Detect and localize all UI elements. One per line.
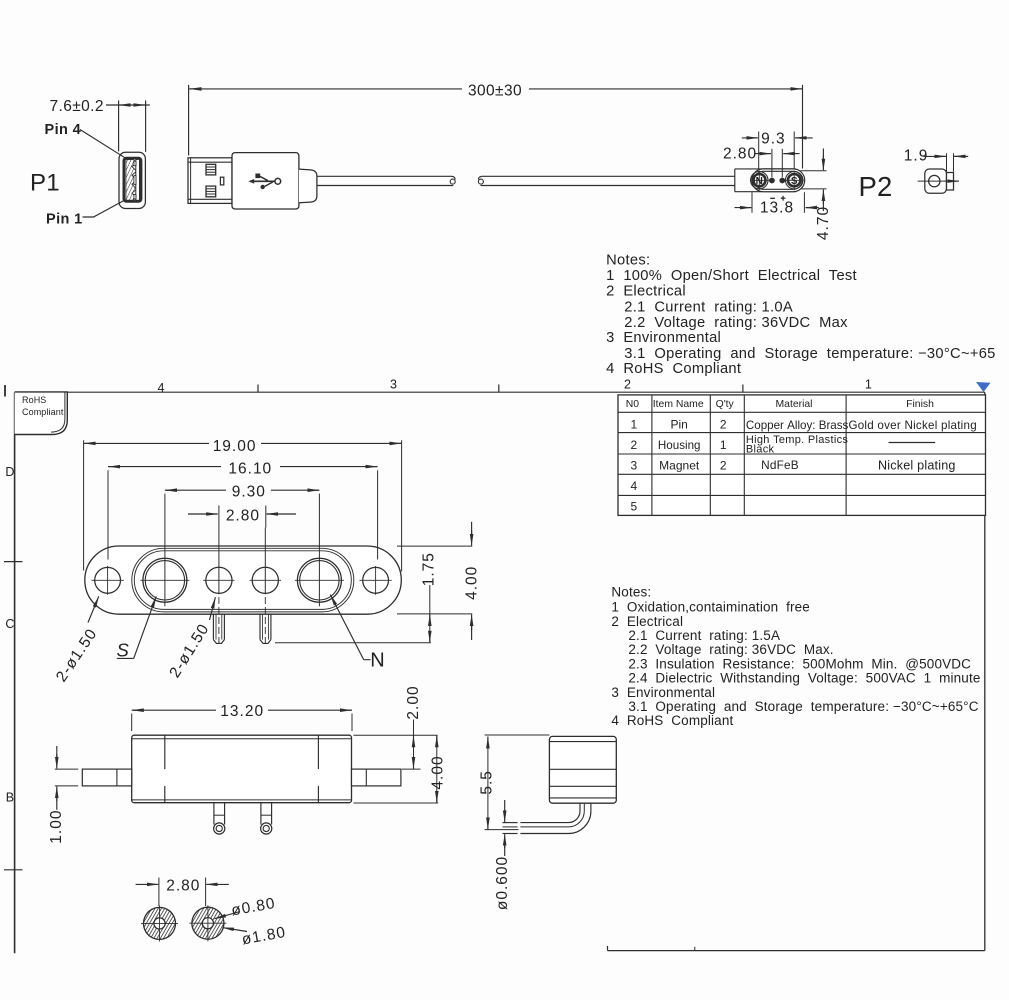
pogo pin S outer circle — [786, 172, 803, 189]
USB plug shell contact window 1 — [206, 164, 216, 175]
side view body — [132, 735, 352, 803]
dimension 2.80 arrows P2 — [755, 153, 771, 155]
frame top tick 1 — [257, 385, 259, 393]
connector P1 contact hatch area — [126, 160, 137, 201]
dimension 1.9 arrows — [924, 155, 946, 157]
dimension 2.80 tick left bottom — [158, 878, 160, 907]
svg-text:1.75: 1.75 — [421, 552, 438, 586]
side view right block lines — [317, 735, 319, 769]
svg-text:NdFeB: NdFeB — [761, 458, 799, 472]
P2 side view boss — [947, 173, 954, 191]
svg-text:2.2 Voltage rating: 36VDC M: 2.2 Voltage rating: 36VDC Max — [624, 315, 848, 331]
side view left tab — [82, 769, 131, 786]
svg-text:4 RoHS Compliant: 4 RoHS Compliant — [611, 713, 733, 728]
svg-text:9.30: 9.30 — [232, 484, 266, 501]
cable segment 1 top line — [317, 175, 452, 177]
dimension 7.6±0.2 extension line right — [145, 100, 147, 151]
connector P1 face view inner metal shell — [124, 158, 141, 201]
svg-text:Pin: Pin — [671, 418, 688, 432]
connector P1 tongue contact notch 1 — [134, 161, 136, 166]
svg-text:N0: N0 — [626, 399, 640, 410]
P2 charge pin plus dot — [779, 178, 785, 184]
wire bend middle — [520, 803, 584, 827]
cable segment 2 break curl — [479, 176, 482, 179]
svg-text:5.5: 5.5 — [479, 770, 496, 795]
USB plug metal shell — [188, 158, 232, 204]
dimension 13.8 extension line right — [803, 192, 805, 213]
label ø1.80 leader — [223, 928, 248, 932]
connector P2 housing — [735, 168, 796, 170]
svg-text:P2: P2 — [859, 171, 893, 202]
dimension 4.70 extension line top — [801, 170, 827, 172]
dimension 16.10 extension left — [107, 470, 109, 559]
solder pad right — [192, 907, 224, 939]
dimension 19.00 extension right — [401, 440, 403, 571]
connector P1 tongue — [136, 159, 140, 200]
solder pad left — [144, 907, 176, 939]
USB plug strain relief boot — [299, 169, 317, 203]
dimension 300±30 extension line left — [188, 85, 190, 156]
dimension 1.75 line — [429, 585, 431, 643]
frame corner tick top-left — [4, 385, 6, 397]
prong tip reference line — [275, 642, 431, 644]
svg-text:4.70: 4.70 — [815, 206, 832, 240]
P2 rear view body — [549, 736, 616, 803]
prong centerline right dashed — [264, 597, 266, 647]
front view prong left — [212, 614, 214, 639]
solder pin hole left (small circle) — [206, 567, 232, 593]
dimension 9.3 extension line right — [793, 132, 795, 169]
pogo pin N ring — [753, 174, 765, 186]
svg-text:2.80: 2.80 — [723, 146, 757, 163]
mounting hole left — [95, 567, 121, 593]
P2 side view centerline with arrow — [918, 180, 958, 182]
svg-text:4.00: 4.00 — [464, 566, 481, 600]
dimension 2.80 extension line left P2 — [771, 149, 773, 177]
svg-text:4: 4 — [158, 381, 165, 395]
svg-text:2.00: 2.00 — [405, 685, 422, 719]
svg-text:4.00: 4.00 — [430, 755, 447, 789]
dimension 2.00 line — [413, 720, 415, 770]
dimension 2.80 tick right bottom — [205, 878, 207, 907]
dimension 9.3 arrows — [742, 137, 758, 139]
side view body bottom inner line — [132, 799, 352, 801]
cable segment 1 break curl — [452, 176, 455, 179]
polarity plus mark — [781, 197, 786, 199]
frame left border — [14, 392, 16, 953]
svg-text:D: D — [5, 465, 14, 479]
pogo pin S ring — [788, 174, 800, 186]
label 2-ø1.50 left leader — [88, 596, 99, 622]
svg-text:2.3 Insulation Resistance:: 2.3 Insulation Resistance: 500Mohm Min. … — [628, 656, 971, 671]
svg-text:Notes:: Notes: — [606, 252, 650, 268]
svg-text:5: 5 — [630, 499, 637, 513]
dimension 13.20 extension right — [351, 714, 353, 732]
svg-text:1 Oxidation,contaimination f: 1 Oxidation,contaimination free — [611, 600, 810, 615]
pogo pin S crosshair — [793, 171, 795, 191]
svg-text:N: N — [370, 649, 384, 671]
dimension 16.10 extension right — [377, 470, 379, 559]
svg-text:Housing: Housing — [658, 439, 701, 452]
label Pin 4 leader — [80, 130, 125, 158]
svg-text:1: 1 — [865, 378, 872, 392]
notes block 2 — [611, 585, 980, 729]
dimension 13.8 arrows — [735, 207, 752, 209]
P2 side view body — [925, 169, 947, 193]
wire stub lines — [503, 822, 518, 824]
front view inner stadium outline A — [132, 548, 354, 612]
svg-text:P1: P1 — [30, 170, 60, 197]
svg-text:Copper Alloy: Brass: Copper Alloy: Brass — [746, 419, 849, 432]
USB plug shell inner bottom line — [188, 198, 232, 200]
P2 charge pin minus dot — [769, 178, 775, 184]
frame top tick 3 — [742, 385, 744, 393]
svg-text:Black: Black — [746, 443, 775, 455]
connector P2 stadium outer outline — [752, 169, 805, 192]
svg-text:4 RoHS Compliant: 4 RoHS Compliant — [606, 361, 741, 377]
svg-text:3 Environmental: 3 Environmental — [606, 330, 721, 346]
USB plug shell inner top line — [188, 161, 232, 163]
svg-text:Magnet: Magnet — [659, 458, 700, 472]
svg-text:4: 4 — [630, 479, 637, 493]
polarity minus mark — [770, 197, 775, 199]
dimension 19.00 line — [84, 442, 209, 444]
svg-text:B: B — [6, 791, 14, 805]
svg-text:C: C — [5, 617, 14, 631]
cable segment 2 top line — [482, 175, 735, 177]
svg-text:Notes:: Notes: — [611, 585, 651, 600]
USB plug plastic body — [232, 153, 299, 209]
P2 rear view body line 4 — [549, 797, 616, 799]
pogo pin S front (big circle left) — [143, 558, 187, 602]
svg-text:13.8: 13.8 — [760, 199, 794, 216]
wire bend inner — [520, 803, 580, 822]
dimension 2.00 extension bottom — [402, 768, 421, 770]
frame right border — [984, 392, 986, 950]
cable segment 1 bottom line — [317, 185, 453, 187]
dimension 13.20 line — [132, 709, 216, 711]
side view prong right — [260, 803, 262, 825]
label 2-ø1.50 middle leader — [210, 597, 216, 620]
frame left zone tick 2 — [4, 869, 23, 871]
svg-text:Gold over Nickel plating: Gold over Nickel plating — [848, 419, 976, 432]
svg-text:Item Name: Item Name — [653, 399, 704, 410]
frame bottom border — [608, 950, 985, 952]
connector P2 stadium inner outline — [754, 171, 802, 189]
mounting hole right — [363, 567, 389, 593]
svg-text:9.3: 9.3 — [761, 131, 786, 148]
dimension 7.6±0.2 line — [106, 104, 150, 106]
dimension 2.80 tick right front — [265, 506, 267, 528]
dimension 300±30 line — [189, 88, 462, 90]
frame top border — [15, 391, 985, 393]
svg-text:3.1 Operating and Storage: 3.1 Operating and Storage temperature: −… — [624, 346, 995, 362]
svg-text:S: S — [791, 176, 798, 187]
svg-text:S: S — [117, 640, 130, 661]
svg-text:Finish: Finish — [906, 399, 934, 410]
svg-text:ø0.600: ø0.600 — [494, 856, 511, 910]
blue revision triangle — [976, 382, 991, 392]
dimension 2.80 tick left front — [218, 506, 220, 528]
USB plug shell contact window 2 — [206, 186, 216, 197]
dimension 1.00 extension bottom — [55, 785, 78, 787]
svg-text:Material: Material — [776, 399, 813, 410]
USB logo — [248, 174, 280, 190]
svg-text:Nickel plating: Nickel plating — [878, 459, 956, 473]
svg-text:2 Electrical: 2 Electrical — [606, 284, 686, 300]
svg-text:2.2 Voltage rating: 36VDC M: 2.2 Voltage rating: 36VDC Max. — [628, 642, 833, 657]
dimension ø0.600 arrows — [504, 800, 506, 816]
dimension 9.3 extension line left — [758, 132, 760, 169]
connector P1 tongue contact notch 3 — [134, 195, 136, 199]
front view inner stadium outline B — [134, 551, 351, 610]
svg-text:3 Environmental: 3 Environmental — [611, 685, 715, 700]
prong centerline left dashed — [218, 597, 220, 647]
dimension 300±30 extension line right — [802, 85, 804, 169]
dimension 2.00 extension top — [354, 734, 438, 736]
dimension 16.10 line — [108, 466, 221, 468]
dimension 1.9 extension line right — [953, 153, 955, 171]
svg-text:RoHS: RoHS — [22, 395, 46, 405]
svg-text:1: 1 — [720, 438, 727, 452]
pogo pin N outer circle — [751, 172, 768, 189]
dimension 9.30 line — [165, 489, 226, 491]
dimension 5.5 extension bottom — [485, 829, 519, 831]
dimension 9.30 extension right — [318, 494, 320, 607]
svg-text:2.80: 2.80 — [226, 507, 260, 524]
svg-text:2: 2 — [720, 458, 727, 472]
frame bottom tick — [694, 947, 696, 951]
label ø0.80 leader — [215, 912, 241, 919]
pogo pin N front (big circle right) — [297, 558, 341, 602]
svg-text:1.00: 1.00 — [48, 810, 65, 844]
dimension 2.80 extension line right P2 — [781, 149, 783, 177]
dimension 4.70 extension line bottom — [801, 188, 827, 190]
label S leader — [134, 596, 157, 658]
frame left zone tick 1 — [4, 561, 23, 563]
dimension 1.9 extension line left — [946, 153, 948, 171]
dimension 5.5 line — [487, 736, 489, 829]
dimension 4.70 arrows — [822, 149, 824, 166]
svg-text:Pin 1: Pin 1 — [46, 211, 83, 227]
side view right tab — [352, 769, 401, 786]
dimension 7.6±0.2 extension line left — [118, 100, 120, 151]
dimension 1.00 extension top — [55, 768, 78, 770]
P2 rear view body line 3 — [549, 785, 616, 787]
USB plug shell left inner line — [190, 158, 192, 204]
RoHS Compliant stamp box — [15, 392, 68, 435]
P2 rear view body line 2 — [549, 768, 616, 770]
svg-text:Pin 4: Pin 4 — [45, 122, 82, 138]
frame bottom hook — [607, 946, 609, 951]
svg-text:13.20: 13.20 — [220, 703, 264, 720]
notes block 1 — [606, 252, 996, 377]
dimension 2.80 arrows front — [188, 513, 218, 515]
pogo pin N crosshair — [758, 171, 760, 191]
front view outer stadium — [85, 546, 402, 614]
dimension 19.00 extension left — [83, 440, 85, 570]
dimension 1.00 arrows — [56, 746, 58, 762]
P2 rear view body line 1 — [549, 741, 616, 743]
svg-text:2.1 Current rating: 1.0A: 2.1 Current rating: 1.0A — [624, 299, 793, 315]
dimension 4.00 extension bottom side — [354, 802, 439, 804]
svg-text:7.6±0.2: 7.6±0.2 — [50, 98, 104, 115]
USB plug shell center slot — [220, 177, 223, 185]
solder pin hole right (small circle) — [252, 567, 278, 593]
svg-text:2: 2 — [630, 438, 637, 452]
svg-text:16.10: 16.10 — [228, 461, 272, 478]
dimension 9.30 extension left — [164, 494, 166, 607]
dimension 13.8 extension line left — [751, 192, 753, 213]
dimension 4.00 extension top — [397, 545, 472, 547]
svg-text:2.1 Current rating: 1.5A: 2.1 Current rating: 1.5A — [628, 628, 780, 643]
svg-text:1 100% Open/Short Electrica: 1 100% Open/Short Electrical Test — [606, 268, 857, 284]
svg-text:Q'ty: Q'ty — [716, 399, 735, 410]
svg-text:2: 2 — [624, 378, 631, 392]
svg-text:300±30: 300±30 — [468, 82, 522, 99]
dimension 13.20 extension left — [131, 714, 133, 732]
wire bend outer — [520, 803, 591, 833]
connector P1 tongue contact notch 2 — [134, 176, 136, 185]
side view prong left — [213, 803, 215, 825]
dimension 4.00 extension bottom — [397, 613, 472, 615]
connector P1 face view outer shell — [119, 152, 145, 208]
frame top tick 2 — [498, 385, 500, 393]
dimension 2.80 arrows bottom — [136, 883, 155, 885]
front view prong right — [259, 614, 261, 639]
P2 side view pin circle — [929, 175, 940, 186]
side view body top inner line — [132, 738, 352, 740]
svg-text:3: 3 — [630, 458, 637, 472]
svg-text:19.00: 19.00 — [213, 438, 257, 455]
svg-text:1: 1 — [630, 418, 637, 432]
dimension 4.00 line side — [436, 735, 438, 803]
svg-text:2.4 Dielectric Withstanding: 2.4 Dielectric Withstanding Voltage: 500… — [628, 671, 980, 686]
solder pin vertical line left — [218, 528, 220, 595]
svg-text:2: 2 — [720, 418, 727, 432]
parts table — [618, 395, 986, 516]
svg-text:3.1 Operating and Storage: 3.1 Operating and Storage temperature: −… — [628, 699, 978, 714]
solder pin vertical line right — [264, 528, 266, 595]
svg-text:3: 3 — [390, 378, 397, 392]
label N leader — [364, 659, 371, 661]
side view left block lines — [164, 735, 166, 769]
cable segment 2 bottom line — [481, 185, 735, 187]
svg-text:Compliant: Compliant — [22, 407, 64, 417]
svg-text:2.80: 2.80 — [166, 878, 200, 895]
dimension 5.5 extension top — [485, 734, 550, 736]
dimension 4.00 arrows front — [471, 522, 473, 538]
svg-text:2 Electrical: 2 Electrical — [611, 614, 683, 629]
svg-text:N: N — [756, 176, 763, 187]
label Pin 1 leader — [83, 201, 124, 217]
